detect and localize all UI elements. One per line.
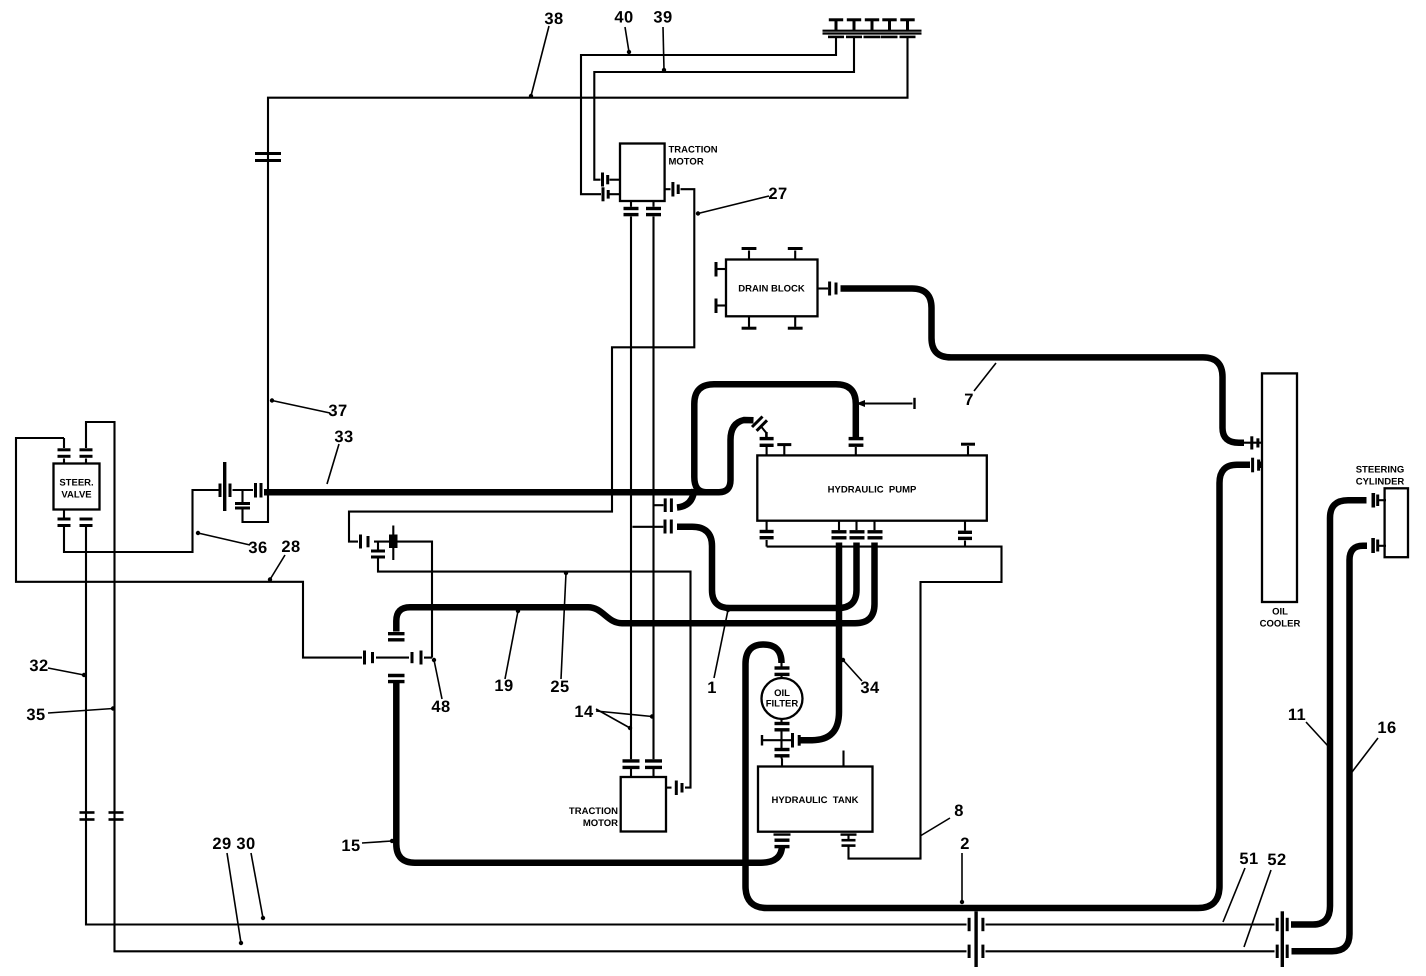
- svg-text:19: 19: [494, 677, 513, 695]
- svg-text:48: 48: [431, 698, 450, 716]
- svg-text:OIL: OIL: [774, 688, 790, 699]
- svg-text:25: 25: [550, 678, 569, 696]
- svg-text:30: 30: [236, 835, 255, 853]
- svg-text:27: 27: [768, 185, 787, 203]
- svg-text:38: 38: [544, 10, 563, 28]
- svg-text:36: 36: [248, 539, 267, 557]
- svg-text:DRAIN BLOCK: DRAIN BLOCK: [738, 284, 805, 295]
- svg-text:2: 2: [960, 835, 970, 853]
- svg-text:FILTER: FILTER: [766, 699, 799, 710]
- svg-text:MOTOR: MOTOR: [583, 818, 618, 829]
- svg-text:14: 14: [574, 703, 594, 721]
- svg-text:39: 39: [653, 9, 672, 27]
- svg-text:STEERING: STEERING: [1356, 465, 1405, 476]
- svg-text:29: 29: [212, 835, 231, 853]
- svg-text:MOTOR: MOTOR: [669, 157, 704, 168]
- svg-text:34: 34: [860, 679, 880, 697]
- svg-text:8: 8: [954, 802, 964, 820]
- svg-text:VALVE: VALVE: [61, 490, 91, 501]
- svg-text:TRACTION: TRACTION: [569, 806, 618, 817]
- svg-text:HYDRAULIC PUMP: HYDRAULIC PUMP: [828, 485, 917, 496]
- svg-text:15: 15: [341, 837, 360, 855]
- svg-text:51: 51: [1239, 850, 1258, 868]
- svg-text:1: 1: [707, 679, 717, 697]
- svg-text:COOLER: COOLER: [1260, 619, 1301, 630]
- svg-text:40: 40: [614, 9, 633, 27]
- svg-text:16: 16: [1377, 719, 1396, 737]
- svg-text:28: 28: [281, 538, 300, 556]
- svg-text:35: 35: [26, 706, 45, 724]
- svg-text:37: 37: [328, 402, 347, 420]
- svg-text:33: 33: [334, 428, 353, 446]
- svg-text:OIL: OIL: [1272, 607, 1288, 618]
- svg-text:STEER.: STEER.: [59, 478, 93, 489]
- svg-text:7: 7: [964, 391, 974, 409]
- svg-text:52: 52: [1267, 851, 1286, 869]
- svg-text:32: 32: [29, 657, 48, 675]
- svg-text:11: 11: [1288, 706, 1306, 724]
- svg-text:HYDRAULIC TANK: HYDRAULIC TANK: [772, 795, 859, 806]
- svg-text:CYLINDER: CYLINDER: [1356, 477, 1405, 488]
- svg-text:TRACTION: TRACTION: [669, 145, 718, 156]
